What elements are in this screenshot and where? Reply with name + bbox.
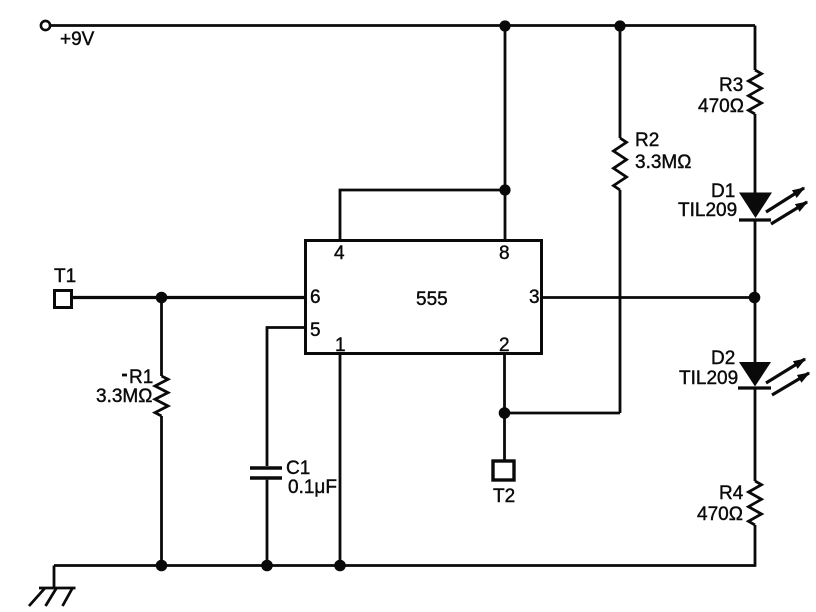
wire pin 2 down [503,353,506,413]
node junction output pin3 [749,292,761,304]
svg-text:R4: R4 [719,483,744,504]
svg-text:3.3MΩ: 3.3MΩ [96,386,152,407]
wire VCC to pin 8 [504,26,507,239]
svg-text:4: 4 [334,243,345,264]
node junction T1 / R1 [156,292,168,304]
svg-text:2: 2 [499,335,510,356]
svg-text:TIL209: TIL209 [678,200,737,221]
svg-text:555: 555 [416,289,448,310]
node junction C1 / ground rail [261,560,273,572]
wire rail to ground symbol [53,566,56,589]
svg-text:470Ω: 470Ω [698,96,744,117]
svg-text:1: 1 [335,335,346,356]
wire D2 to R4 [754,388,757,481]
wire pin 5 to C1 [267,328,305,467]
wire top supply rail [50,24,755,27]
node junction top rail / R2 branch [614,20,625,31]
svg-text:5: 5 [310,320,321,341]
resistor R4 [697,481,762,525]
+9V supply terminal [41,21,95,50]
svg-text:R3: R3 [719,75,743,96]
svg-text:470Ω: 470Ω [697,504,743,525]
svg-text:3: 3 [529,287,540,308]
svg-text:8: 8 [499,243,510,264]
node junction R1 / ground rail [156,560,168,572]
svg-text:D2: D2 [711,348,735,369]
wire D1 to output node [754,220,757,362]
svg-text:T1: T1 [54,266,76,287]
LED D2 TIL209 [679,348,809,395]
capacitor C1 [250,458,337,566]
terminal T2 [493,461,515,507]
wire R4 to ground rail [754,525,757,567]
svg-text:3.3MΩ: 3.3MΩ [635,152,691,173]
svg-text:C1: C1 [286,458,310,479]
svg-text:6: 6 [310,287,321,308]
resistor R2 [614,26,692,413]
node junction top rail / pin8 branch [499,20,510,31]
op IC U1 555 [306,241,542,354]
svg-text:R1: R1 [129,367,153,388]
node junction pin1 / ground rail [334,560,346,572]
wire pin 1 to ground rail [339,353,342,566]
resistor R3 [698,26,762,118]
terminal T1 [54,266,76,308]
wire pin 3 output [543,296,754,299]
wire R2 bottom to pin2 node [505,412,621,415]
svg-text:T2: T2 [493,486,515,507]
wire node to T2 [503,413,506,460]
node junction pin4/pin8 wire [499,184,510,195]
svg-text:+9V: +9V [60,29,95,50]
wire R3 to D1 [754,114,757,193]
wire T1 to pin 6 [72,296,305,299]
svg-text:0.1μF: 0.1μF [288,477,337,498]
wire bottom ground rail [54,564,755,567]
resistor R1 [96,298,168,566]
wire pin 4 to pin 8 branch [340,190,505,240]
node junction pin2 / R2 / T2 [499,407,511,419]
ground [29,588,76,606]
svg-text:R2: R2 [635,130,659,151]
LED D1 TIL209 [678,181,807,224]
svg-text:D1: D1 [711,181,735,202]
svg-text:TIL209: TIL209 [679,368,738,389]
